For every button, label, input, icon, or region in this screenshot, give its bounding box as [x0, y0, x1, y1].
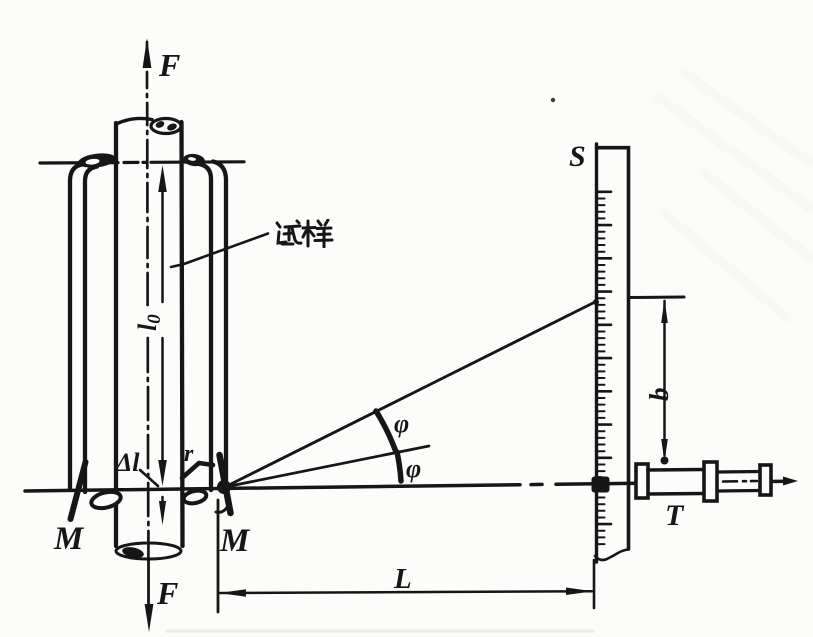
svg-text:b: b — [644, 388, 674, 402]
svg-text:L: L — [393, 563, 412, 595]
svg-text:M: M — [53, 521, 85, 557]
svg-text:φ: φ — [394, 409, 409, 438]
svg-text:T: T — [665, 499, 685, 532]
svg-text:F: F — [158, 47, 180, 83]
svg-text:Δl: Δl — [115, 448, 140, 477]
svg-text:r: r — [184, 441, 194, 467]
svg-text:S: S — [569, 140, 586, 173]
svg-text:φ: φ — [406, 454, 421, 483]
svg-text:F: F — [156, 575, 178, 611]
svg-text:M: M — [219, 523, 251, 559]
